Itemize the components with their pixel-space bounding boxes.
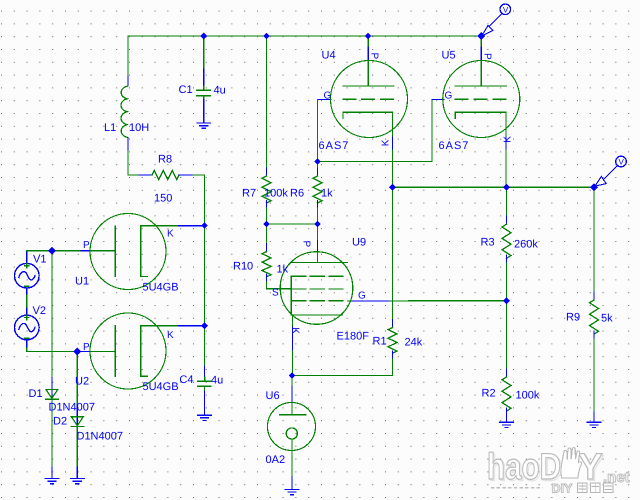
tube U9 cathode — [291, 314, 342, 316]
svg-text:5k: 5k — [601, 313, 613, 325]
wire D1 to ground — [51, 399, 53, 467]
node U5 cathode / R3 — [503, 184, 510, 191]
svg-text:R7: R7 — [242, 188, 256, 200]
probe V output 2 — [595, 156, 627, 186]
svg-text:L1: L1 — [104, 122, 116, 134]
wire U2 cathode to rail — [141, 325, 179, 327]
ground below R9 — [587, 422, 601, 427]
wire V2 minus to node B — [26, 340, 28, 348]
svg-text:V1: V1 — [33, 254, 46, 266]
source V1 polarity marks — [25, 264, 29, 287]
node top rail / U4 plate — [365, 33, 372, 40]
svg-text:G: G — [324, 91, 332, 102]
node U4 grid / R6 — [314, 158, 321, 165]
svg-text:R3: R3 — [481, 237, 495, 249]
tube U6 envelope — [268, 403, 316, 451]
wire grid tie to U5 — [318, 100, 433, 162]
wire V1 plus to node A — [26, 251, 28, 263]
svg-text:K: K — [167, 330, 174, 341]
svg-text:150: 150 — [154, 193, 172, 205]
ground below C1 — [197, 123, 211, 128]
svg-text:DIY: DIY — [552, 482, 574, 496]
tube U6 anode bar — [280, 414, 306, 416]
tube U4 cathode — [343, 112, 393, 118]
capacitor C1 — [197, 86, 210, 99]
svg-text:P: P — [83, 240, 90, 251]
resistor R7 — [262, 176, 271, 203]
svg-text:R6: R6 — [290, 188, 304, 200]
node top rail / C1 — [200, 33, 207, 40]
wire K rail middle — [204, 226, 206, 326]
resistor R10 — [262, 252, 271, 277]
wire R10 to U9 screen — [267, 282, 292, 289]
wire R9 top lead — [593, 187, 595, 292]
wire R1 bottom to U9 cathode node — [292, 359, 393, 376]
tube U2 plate — [114, 326, 116, 377]
wire U9 grid pin to divider — [348, 300, 353, 302]
node R7 / R10 — [263, 221, 270, 228]
svg-text:S: S — [272, 288, 279, 299]
svg-text:6AS7: 6AS7 — [439, 140, 470, 152]
node V2 / U2 plate / D2 — [73, 348, 81, 356]
wire U4 plate lead — [367, 36, 369, 47]
svg-text:D1N4007: D1N4007 — [49, 402, 95, 414]
svg-text:G: G — [358, 291, 366, 302]
svg-text:P: P — [83, 342, 90, 353]
wire top rail B+ — [128, 35, 481, 37]
tube U1 cathode — [141, 226, 148, 277]
wire L1 bottom lead — [127, 138, 129, 152]
resistor R8 — [139, 174, 152, 176]
svg-text:U1: U1 — [75, 276, 89, 288]
logo dashed line — [491, 487, 543, 489]
wire node B down to D2 — [76, 352, 78, 406]
ground below D2 — [71, 479, 85, 484]
svg-text:P: P — [482, 53, 493, 60]
svg-text:D1N4007: D1N4007 — [77, 431, 123, 443]
inductor L1 — [121, 86, 128, 138]
capacitor C4 — [198, 377, 211, 386]
svg-text:5U4GB: 5U4GB — [143, 282, 179, 294]
source V2 — [14, 315, 39, 340]
tube U4 grid dashes — [343, 98, 394, 100]
svg-text:C4: C4 — [179, 374, 193, 386]
svg-text:0A2: 0A2 — [266, 454, 286, 466]
wire L1 top lead — [127, 36, 129, 76]
tube U4 plate bar — [343, 85, 394, 87]
wire C1 stub from top rail — [203, 36, 205, 69]
tube U9 envelope — [280, 252, 353, 325]
diode D2 — [71, 417, 84, 427]
svg-text:R1: R1 — [373, 336, 387, 348]
wire U1 cathode to rail — [141, 225, 179, 227]
wire D2 to ground — [76, 426, 78, 467]
svg-text:K: K — [503, 136, 514, 143]
svg-text:1k: 1k — [277, 264, 289, 276]
svg-text:10H: 10H — [129, 122, 149, 134]
node U9 cathode / R1 / U6 — [289, 372, 296, 379]
svg-text:260k: 260k — [514, 239, 538, 251]
svg-text:K: K — [167, 229, 174, 240]
svg-text:5U4GB: 5U4GB — [143, 381, 179, 393]
svg-text:.net: .net — [603, 469, 630, 486]
tube U5 envelope — [443, 61, 520, 138]
tube U9 screen tie bar — [290, 276, 292, 315]
svg-text:C1: C1 — [179, 84, 193, 96]
node U2 cathode / C4 — [201, 322, 208, 329]
svg-text:K: K — [290, 327, 301, 334]
svg-text:V: V — [619, 158, 625, 167]
tube U2 cathode — [141, 326, 148, 377]
tube U1 plate — [114, 226, 116, 277]
svg-text:P: P — [369, 53, 380, 60]
wire output rail y187 — [393, 186, 595, 188]
tube U2 envelope — [90, 313, 166, 389]
wire node A to U1 plate — [52, 250, 81, 252]
diode D1 — [46, 390, 59, 400]
wire U4 cathode drop — [392, 112, 394, 137]
svg-text:D2: D2 — [53, 416, 67, 428]
wire node B to U2 plate — [77, 351, 81, 353]
wire R6 top from grid node — [317, 162, 319, 169]
node R3 / R2 / U9 grid — [503, 297, 510, 304]
wire U4 grid pin — [318, 99, 332, 101]
tube U6 cathode circle — [286, 428, 297, 439]
logo hand — [561, 448, 582, 478]
source V2 polarity marks — [25, 315, 29, 338]
svg-text:U4: U4 — [322, 50, 336, 62]
svg-text:Y: Y — [578, 446, 603, 487]
svg-text:U9: U9 — [352, 237, 366, 249]
resistor R6 — [313, 176, 322, 203]
wire U6 anode lead — [291, 376, 293, 387]
probe V output 1 — [482, 4, 511, 36]
source V1 — [14, 263, 39, 288]
resistor R3 — [502, 224, 511, 258]
svg-text:100k: 100k — [516, 390, 540, 402]
resistor R1 — [388, 328, 397, 354]
tube U5 cathode — [455, 112, 506, 118]
svg-text:24k: 24k — [405, 337, 423, 349]
resistor R2 — [502, 377, 511, 411]
resistor R9 — [590, 300, 599, 334]
svg-text:P: P — [301, 241, 312, 248]
node R6 / U9 plate — [314, 221, 321, 228]
svg-text:V: V — [503, 5, 509, 14]
tube U5 plate bar — [455, 85, 506, 87]
wire R7-R6 bottom link — [267, 223, 318, 225]
svg-text:R10: R10 — [233, 261, 253, 273]
wire U5 cathode drop — [505, 112, 507, 137]
wire node A down to D1 — [51, 251, 53, 378]
svg-text:R8: R8 — [158, 154, 172, 166]
svg-text:100k: 100k — [264, 188, 288, 200]
wire R8 to K rail — [193, 175, 205, 226]
svg-text:G: G — [445, 91, 453, 102]
svg-text:V2: V2 — [33, 305, 46, 317]
svg-text:4u: 4u — [211, 375, 223, 387]
wire R2 top lead — [506, 301, 508, 369]
svg-text:R2: R2 — [482, 388, 496, 400]
svg-text:E180F: E180F — [337, 331, 370, 343]
watermark logo haoDIY.net — [487, 446, 630, 496]
svg-text:U2: U2 — [75, 376, 89, 388]
wire U6 cathode to ground — [291, 439, 293, 476]
node U1 cathode / R8 rail — [201, 222, 208, 229]
node V1 / U1 plate / D1 — [48, 247, 56, 255]
wire V1 minus to V2 plus — [26, 289, 28, 295]
svg-text:6AS7: 6AS7 — [319, 140, 350, 152]
svg-text:U6: U6 — [266, 390, 280, 402]
node top rail / R7 — [263, 33, 270, 40]
wire U5 plate lead — [480, 36, 482, 47]
wire R10 top lead — [266, 224, 268, 244]
node U4 cathode / output rail — [389, 184, 396, 191]
svg-text:haoD: haoD — [487, 446, 561, 487]
tube U1 envelope — [90, 214, 166, 290]
wire R7 branch from top rail — [266, 36, 268, 168]
svg-text:4u: 4u — [214, 85, 226, 97]
wire U9 plate lead — [317, 224, 319, 241]
node top rail / U5 plate / probe — [477, 32, 485, 40]
svg-text:K: K — [380, 139, 391, 146]
ground below D1 — [45, 479, 59, 484]
wire K rail to C4 — [204, 326, 206, 366]
tube U9 grid dashes — [292, 276, 344, 301]
wire U4 cathode down to R1 — [392, 187, 394, 319]
tube U4 envelope — [331, 61, 408, 138]
logo CJK squares — [578, 483, 614, 493]
svg-text:R9: R9 — [566, 312, 580, 324]
tube U5 grid dashes — [455, 98, 506, 100]
node output rail / R9 / probe — [590, 183, 598, 191]
ground below R2 — [500, 422, 514, 427]
svg-text:D1: D1 — [29, 388, 43, 400]
wire R3 top lead — [506, 187, 508, 216]
svg-text:1k: 1k — [321, 188, 333, 200]
svg-text:U5: U5 — [442, 50, 456, 62]
wire U9 cathode drop — [292, 315, 294, 327]
tube U9 plate bar — [291, 262, 348, 264]
ground below U6 — [285, 489, 299, 494]
ground below C4 — [198, 415, 212, 420]
